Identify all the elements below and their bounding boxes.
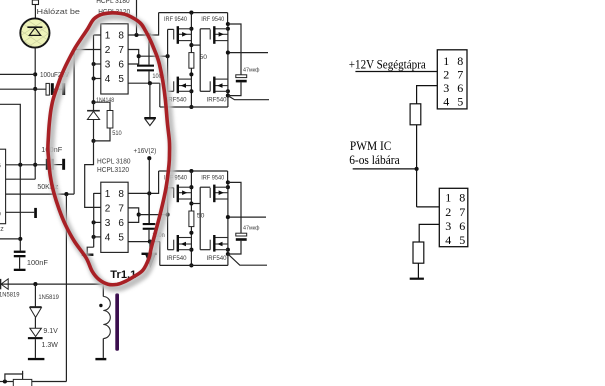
wire edge y89	[0, 88, 46, 90]
node PWM	[415, 167, 419, 171]
svg-text:6: 6	[118, 218, 124, 229]
svg-text:PWM IC: PWM IC	[350, 139, 392, 153]
highlight oval shadow	[51, 16, 173, 288]
wire right leg top	[227, 171, 229, 182]
svg-text:2: 2	[443, 68, 449, 82]
svg-text:47мкф: 47мкф	[243, 67, 260, 73]
pin3 stub	[94, 221, 101, 223]
node	[226, 252, 230, 256]
pin5 wire	[128, 82, 160, 84]
wire W1 drive	[6, 193, 75, 195]
transistor IRF540 B2R	[210, 235, 228, 252]
wire gate rail right	[199, 187, 201, 250]
transistor IRF540 B1L	[174, 77, 192, 94]
wire to rail	[227, 96, 229, 107]
pin3 stub	[94, 63, 101, 65]
svg-text:100nF: 100nF	[27, 260, 48, 267]
potentiometer R4	[0, 381, 13, 383]
wiper stub	[22, 371, 24, 374]
svg-text:HCPL 3180: HCPL 3180	[96, 0, 130, 5]
wire left leg upper	[190, 171, 192, 211]
node	[226, 22, 230, 26]
svg-text:IRF540: IRF540	[207, 97, 227, 104]
svg-text:1N5819: 1N5819	[38, 294, 59, 301]
ground (open arrow) U1	[149, 83, 151, 117]
gate link P left	[168, 28, 174, 30]
svg-text:1.3W: 1.3W	[42, 342, 59, 349]
transformer Tr1.1	[102, 284, 104, 296]
wiper link	[5, 374, 23, 382]
node top feed	[134, 33, 138, 37]
pin8 VCC wire to rail	[128, 171, 159, 193]
svg-text:2: 2	[105, 45, 111, 56]
svg-text:7: 7	[457, 68, 463, 82]
svg-text:3: 3	[443, 81, 449, 95]
pin4 stub	[94, 78, 101, 80]
wire LED chain to U2 pin2	[85, 141, 101, 208]
node	[226, 94, 230, 98]
capacitor C5 plate	[34, 208, 37, 218]
wire to K2 pin2	[417, 206, 440, 208]
wire gate rail left	[167, 188, 169, 250]
node	[189, 27, 193, 31]
wire drain to right gates	[191, 44, 200, 46]
svg-text:4: 4	[445, 233, 451, 247]
svg-text:HCPL 3180: HCPL 3180	[97, 158, 131, 165]
svg-text:7: 7	[118, 45, 124, 56]
phase dot	[99, 304, 102, 307]
node rail	[189, 169, 193, 173]
node	[92, 76, 96, 80]
U1 pin2 wire	[74, 49, 101, 51]
wire to gate rail	[139, 214, 168, 216]
wire PWM IC line	[353, 168, 417, 170]
svg-text:IRF540: IRF540	[167, 255, 187, 262]
wire left leg lower	[190, 68, 192, 107]
capacitor 47mkf (B2)	[228, 182, 241, 233]
node	[148, 240, 152, 244]
wire drain to right gates	[191, 203, 200, 205]
svg-text:+16V(2): +16V(2)	[134, 148, 157, 155]
node	[189, 105, 193, 109]
wire box row4	[6, 211, 35, 213]
node output	[137, 54, 141, 58]
pins7-6 link	[128, 50, 139, 65]
svg-text:8: 8	[118, 189, 124, 200]
capacitor 100n decoupling (U1)	[148, 35, 150, 65]
diode D3 1N5819	[30, 306, 42, 308]
node	[18, 237, 22, 241]
capacitor 47mkf (B1)	[228, 24, 241, 75]
svg-text:5: 5	[118, 74, 124, 85]
node	[33, 163, 37, 167]
transistor IRF9540 B2R	[210, 185, 228, 203]
node	[92, 235, 96, 239]
wire VCC rail	[159, 12, 228, 14]
transformer core	[115, 293, 119, 350]
svg-text:IRF540: IRF540	[207, 255, 227, 262]
diode D1 1N4148	[87, 110, 100, 112]
node	[189, 248, 193, 252]
node	[91, 139, 95, 143]
wire aux vertical	[65, 194, 67, 381]
gate link P right	[200, 186, 210, 188]
transistor IRF9540 B2L	[174, 185, 192, 203]
diode D2 1N5819	[1, 279, 8, 289]
node	[226, 27, 230, 31]
ground	[28, 358, 45, 360]
svg-text:4: 4	[105, 232, 111, 243]
pin5 wire	[128, 241, 160, 243]
wire	[34, 317, 36, 328]
wire edge y239	[0, 238, 20, 240]
wire left leg lower	[190, 227, 192, 266]
svg-text:2: 2	[445, 205, 451, 219]
svg-text:5: 5	[459, 233, 465, 247]
node	[226, 180, 230, 184]
opto driver U2 HCPL3120	[101, 182, 128, 252]
wire K1 pin3 to R5	[417, 86, 438, 104]
svg-text:7: 7	[118, 203, 124, 214]
gate link P left	[168, 187, 174, 189]
wire to controller box	[6, 178, 36, 180]
wire pin2 vertical	[73, 50, 75, 195]
wire edge y74	[0, 73, 35, 75]
node	[226, 51, 230, 55]
node	[189, 43, 193, 47]
node	[92, 62, 96, 66]
node rail	[189, 11, 193, 15]
wire right leg	[227, 24, 229, 96]
svg-text:3: 3	[105, 59, 111, 70]
capacitor C3 100nF	[46, 159, 49, 170]
node gate rail	[166, 213, 170, 217]
node	[33, 87, 37, 91]
connector K1 (8-pin)	[437, 50, 467, 109]
wire output B2 top	[228, 216, 266, 218]
svg-text:IRF 9540: IRF 9540	[164, 16, 187, 23]
pin1 stub	[94, 34, 101, 36]
opto driver U1 HCPL3120	[101, 24, 128, 94]
svg-text:47мкф: 47мкф	[243, 226, 260, 232]
svg-text:1N5819: 1N5819	[0, 292, 20, 299]
wire R5 down	[416, 125, 418, 207]
svg-text:6: 6	[0, 164, 2, 170]
wire gate rail right	[199, 29, 201, 92]
node	[189, 201, 193, 205]
capacitor 100n decoupling (U2)	[148, 193, 150, 223]
node	[18, 163, 22, 167]
pin8 VCC wire to rail	[128, 13, 159, 35]
svg-text:2: 2	[105, 203, 111, 214]
gate link P right	[200, 28, 210, 30]
zener D4 9.1V	[30, 328, 42, 336]
wire aux rail y284	[0, 283, 103, 285]
wire	[102, 339, 104, 358]
wire +16V to cap	[148, 158, 150, 223]
pin1 stub	[94, 192, 101, 194]
wire from top edge	[136, 0, 138, 35]
svg-text:6: 6	[459, 219, 465, 233]
gate link N right	[200, 249, 210, 251]
svg-text:6: 6	[457, 81, 463, 95]
wire left leg upper	[190, 13, 192, 53]
transistor IRF540 B1R	[210, 77, 228, 94]
node	[64, 192, 68, 196]
wire to ground	[87, 247, 94, 253]
node	[92, 220, 96, 224]
wire VCC rail	[159, 170, 228, 172]
resistor R5	[410, 104, 421, 125]
node	[189, 89, 193, 93]
svg-text:8: 8	[118, 30, 124, 41]
wire K2 pin3 to R6	[419, 224, 439, 242]
svg-text:9: 9	[0, 212, 2, 218]
svg-text:8: 8	[457, 54, 463, 68]
wire	[34, 284, 36, 307]
capacitor C1 100uF25V	[46, 83, 49, 95]
node	[189, 72, 193, 76]
gate link N left	[168, 90, 174, 92]
wire y104 corner down	[0, 104, 20, 250]
svg-text:7: 7	[459, 205, 465, 219]
wire output B2 bottom	[228, 254, 267, 265]
svg-text:9.1V: 9.1V	[43, 328, 58, 335]
transistor IRF540 B2L	[174, 235, 192, 252]
node	[189, 185, 193, 189]
svg-text:Hálózat be: Hálózat be	[37, 7, 81, 16]
svg-text:6-os lábára: 6-os lábára	[349, 153, 400, 167]
node	[33, 72, 37, 76]
svg-text:4: 4	[105, 74, 111, 85]
ground (solid arrow) U2	[149, 242, 151, 253]
svg-text:6: 6	[118, 59, 124, 70]
svg-text:3: 3	[445, 219, 451, 233]
svg-text:IRF 9540: IRF 9540	[201, 16, 224, 23]
pins7-6 link	[128, 208, 139, 223]
transistor IRF9540 B1L	[174, 26, 192, 44]
capacitor C6 100nF	[14, 251, 26, 253]
svg-text:1: 1	[105, 189, 111, 200]
highlight oval (red)	[48, 13, 170, 285]
svg-text:5: 5	[118, 232, 124, 243]
node	[226, 248, 230, 252]
node	[33, 282, 37, 286]
wire box to 100n row	[6, 164, 46, 166]
wire to rail	[227, 254, 229, 265]
svg-text:4: 4	[443, 95, 449, 109]
ground	[95, 358, 106, 360]
wire bottom rail	[160, 264, 228, 266]
wire right leg top	[227, 13, 229, 24]
svg-text:+12V Segégtápra: +12V Segégtápra	[349, 58, 426, 72]
wire R6 down	[417, 263, 419, 279]
node output	[137, 213, 141, 217]
wire LED rail U1	[93, 35, 95, 102]
node	[148, 81, 152, 85]
resistor R2 510	[94, 102, 111, 110]
svg-text:HCPL3120: HCPL3120	[97, 167, 129, 174]
node gate rail	[166, 54, 170, 58]
wire +12V to connector	[355, 71, 437, 73]
resistor 50 (B2)	[189, 211, 194, 227]
svg-text:IRF 9540: IRF 9540	[201, 174, 224, 181]
node	[226, 89, 230, 93]
node	[189, 263, 193, 267]
wire to bottom rail	[159, 83, 161, 107]
wire bottom rail	[160, 106, 228, 108]
PWM controller box (off-screen)	[0, 149, 6, 224]
resistor 50 (B1)	[189, 53, 194, 69]
wire right leg	[227, 182, 229, 254]
ground tick	[410, 278, 424, 280]
connector K2 (8-pin)	[439, 188, 468, 246]
wire lamp main vertical	[34, 48, 36, 180]
svg-text:1: 1	[445, 191, 451, 205]
svg-text:8: 8	[459, 191, 465, 205]
node VCC	[147, 191, 151, 195]
ground	[14, 269, 26, 271]
ground	[82, 254, 94, 257]
svg-text:z: z	[0, 226, 4, 233]
svg-text:5: 5	[457, 95, 463, 109]
lamp LA1	[14, 14, 58, 72]
transistor IRF9540 B1R	[210, 26, 228, 44]
svg-text:510: 510	[112, 130, 122, 137]
wire	[34, 339, 36, 358]
node	[189, 231, 193, 235]
wire pad to lamp	[34, 5, 36, 19]
svg-text:1: 1	[105, 30, 111, 41]
resistor R6	[413, 242, 424, 263]
node	[226, 215, 230, 219]
wire LED rail U2	[93, 193, 95, 247]
node	[226, 185, 230, 189]
node	[147, 33, 151, 37]
node +16V(2) supply tap	[147, 156, 151, 160]
svg-text:1: 1	[443, 54, 449, 68]
gate link N right	[200, 90, 210, 92]
wire output B1 top	[228, 52, 268, 54]
node	[91, 100, 95, 104]
wire output B1 bottom	[228, 96, 269, 100]
svg-text:3: 3	[105, 218, 111, 229]
wire gate rail left	[167, 29, 169, 91]
pin4 stub	[94, 236, 101, 238]
wire to gate rail	[139, 55, 168, 57]
gate link N left	[168, 249, 174, 251]
connector pad J1	[32, 0, 38, 5]
wire to bottom rail	[159, 242, 161, 266]
